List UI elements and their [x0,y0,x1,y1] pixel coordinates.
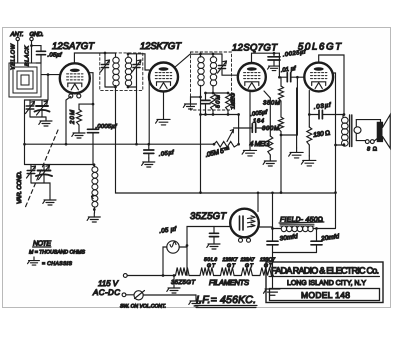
label BLACK [24,46,30,66]
tube U5 35Z5GT rectifier [230,209,259,243]
resistor R1 20M [77,104,94,129]
label 35Z5GT [190,211,227,222]
label .05M 5th [205,146,231,159]
label VAR.COND. [16,171,23,204]
label FIELD-450 [279,217,324,224]
bus: B+ line y=192.6 [117,191,336,194]
coil T1 primary [113,53,119,87]
capacitor C10 30mfd [267,229,278,253]
wire: U3 plate up and over [252,52,280,63]
label 20mfd [320,233,340,243]
wire: bus2 drop to filter node [271,193,274,230]
wire: B+ bus to output transformer bottom [336,144,346,147]
volume control R6 .5M [213,141,240,147]
tube U4 50L6GT output [304,63,333,92]
wire: U1 plate to IFT1 [74,52,115,64]
pins U1 [69,92,81,98]
label .0005uf [96,123,118,130]
label 8 ohm [367,147,377,153]
label 4 MEG [250,141,271,148]
terminal: line plug top [123,274,127,278]
wire: U4 beam ground [289,88,304,158]
svg-text:ANT.: ANT. [10,31,24,38]
field coil L3 450ohm [273,226,318,232]
coil T2 primary [198,53,204,86]
wire: U5 left .05 line [186,227,231,276]
label 350M [263,100,280,107]
ground: heater string end [264,276,281,296]
label 130ohm [313,130,331,139]
wire: U2 plate to IFT2 [175,54,201,67]
svg-text:MODEL 148: MODEL 148 [301,290,350,300]
resistor R7 4MEG [268,128,273,157]
wire: speaker bottom + connectors [356,139,377,144]
trimmer capacitor T2 [218,54,227,73]
wire: grid node down to tuning gang [47,75,49,100]
heater 12SK7 [221,268,235,276]
svg-text:50M: 50M [216,95,222,108]
ground: heater tap [167,276,180,294]
IF transformer T2 dashed box [191,52,232,110]
svg-text:= CHASSIS: = CHASSIS [42,261,73,267]
capacitor C9 .05uf rect [207,227,220,250]
label .01uf [280,65,297,74]
svg-text:35Z5GT: 35Z5GT [190,211,227,222]
svg-text:.05µf: .05µf [48,52,63,59]
label 115V AC-DC [92,279,120,297]
svg-text:FADA RADIO & ELECTRIC Co.: FADA RADIO & ELECTRIC Co. [271,266,379,276]
dashed link: ganged tuning [25,130,58,208]
tube U2 12SK7GT IF amp [149,63,178,92]
svg-text:50L6GT: 50L6GT [298,42,342,53]
trimmer capacitor T1 primary [101,53,110,87]
wire: U1 cathode to bus [65,97,71,146]
terminal: line plug bottom [122,293,126,297]
output transformer T3 primary [342,115,349,146]
ground: R8 [301,156,316,166]
svg-text:4 MEG: 4 MEG [250,141,271,148]
ground: switch line [189,295,202,306]
variable capacitor gang 1 (RF) [25,100,50,117]
capacitor C2 .0005uf osc grid [88,104,99,165]
wire: filter negative return [271,253,316,277]
capacitor C3 AVC filter [201,93,210,115]
coil T1 secondary [125,54,131,87]
resistor R3 1MEG [226,93,231,115]
svg-text:GT: GT [245,263,254,269]
svg-text:1MEG: 1MEG [231,92,237,109]
ground: R1 [72,129,85,138]
svg-text:350M: 350M [263,100,280,107]
label 1MEG [231,92,237,109]
svg-text:8Ω: 8Ω [367,147,377,153]
svg-text:GT: GT [207,263,216,269]
heater string wire [127,274,272,277]
heater 12SA7 [241,268,252,276]
capacitor C1 .05uf antenna [32,46,46,63]
tube U3 12SQ7GT det/AVC/AF [238,63,266,91]
switch SW1 [126,291,196,300]
wire: U5 cathode to filter [259,226,273,228]
label 300M [262,125,279,132]
label GND. [30,31,44,38]
label 30mfd [279,233,298,243]
label 12SA7GT [52,41,95,52]
label .05uf (antenna cap) [48,52,63,59]
ground: U3 cathode [242,146,257,156]
capacitor C4 .0025uf [268,53,280,70]
svg-text:.0005µf: .0005µf [96,123,118,130]
speaker SP1 [377,115,390,149]
ANT terminal [16,37,19,63]
label 50L6GT [298,42,342,53]
coil T2 secondary [210,53,216,93]
svg-text:VAR. COND.: VAR. COND. [16,171,23,204]
ground: R7 [263,157,276,166]
oscillator coil L2 [92,165,98,214]
capacitor C11 20mfd [311,229,322,253]
svg-text:12SQ7GT: 12SQ7GT [232,43,278,54]
wire: T1 primary B+ drop / bus2 left end [116,87,118,193]
wire: U3 cathode to ground [249,91,251,146]
resistor R2 50M [211,93,216,115]
ground: oscillator coil [87,213,100,222]
wire: T1 primary bottom bar [105,86,117,89]
label .05uf rect [159,226,178,235]
resistor R8 130ohm [307,127,312,156]
label 20M [69,110,76,125]
wire: U5 plate from bus2 [257,193,259,212]
svg-text:35Z5GT: 35Z5GT [171,279,196,286]
variable capacitor gang 2 (oscillator) [25,165,53,197]
label 50M [216,95,222,108]
title box [266,262,383,303]
core: field coil [280,224,314,226]
label ANT. [10,31,24,38]
wire: plate down to coupling [278,53,281,78]
pilot lamp PL1 [162,241,187,277]
node: antenna junction [30,44,33,47]
svg-text:12SK7GT: 12SK7GT [140,41,182,52]
label 12SQ7GT [232,43,278,54]
wire: diode load top bar [204,92,229,95]
wire: field coil to screen line [317,228,336,230]
wire: C6 up to U3 diode [264,91,270,128]
wire: speaker top [356,120,380,123]
label .03uf [313,102,332,111]
svg-text:164: 164 [253,118,264,125]
svg-text:M = THOUSAND OHMS: M = THOUSAND OHMS [29,250,86,256]
tap: oscillator coil [92,195,94,199]
label FILAMENTS [209,278,249,287]
svg-text:FILAMENTS: FILAMENTS [209,278,249,287]
ground: gang 2 [43,196,56,205]
label SW. ON VOL.CONT. [120,304,166,310]
loop antenna L1 [9,63,41,97]
ground: U2 cathode [156,115,171,125]
wire: U1 grid2 right side [90,73,95,106]
label YELLOW [11,43,17,70]
svg-text:I.F.= 456KC.: I.F.= 456KC. [196,294,256,306]
bus: AVC line y=144.2 [25,143,215,145]
svg-text:SW. ON VOL.CONT.: SW. ON VOL.CONT. [120,304,166,310]
svg-text:BLACK: BLACK [24,46,30,66]
wire: U4 plate to OPT [319,55,346,116]
note block [28,241,86,268]
resistor: 35Z5 heater [176,268,190,276]
svg-text:AC-DC: AC-DC [92,288,120,297]
capacitor C5 .01uf coupling [279,73,304,82]
wire: T2 top bar [201,53,223,55]
label .0025uf [282,48,307,58]
resistor R4 350M [279,77,284,101]
svg-text:115 V: 115 V [98,279,119,288]
svg-text:GND.: GND. [30,31,44,38]
ground: T2 [183,97,200,109]
wire: loop to grid of U1 [41,73,60,76]
arrow: volume tap [227,130,234,142]
svg-text:LONG ISLAND CITY, N.Y: LONG ISLAND CITY, N.Y [287,280,366,287]
wire: grid leak drop [281,77,297,135]
wire: diode load bottom bar y=114.5 [201,113,239,116]
label .005uf 164 [250,108,269,124]
svg-text:20M: 20M [69,110,76,125]
capacitor C8 .05uf AVC bypass [142,144,155,167]
wire: T1 secondary AVC drop [135,87,138,146]
label 12SK7GT [140,41,182,52]
wire: U2 grid return to AVC bus [147,81,150,146]
wire: T1 secondary bottom bar [127,86,137,89]
label .05uf AVC [158,149,175,158]
svg-text:GT: GT [227,263,236,269]
IF transformer T1 dashed box [100,53,143,91]
wire: right end down to volume control [237,113,240,144]
wire: gang common down-bus [23,100,26,165]
GND terminal [30,37,33,63]
resistor R5 300M [279,101,284,194]
wire: gang2 to oscillator coil [50,163,95,166]
tube U1 12SA7GT converter [60,63,90,93]
labels heater tubes [204,257,275,269]
secondary T3 [354,120,361,141]
ground: gang 1 [39,117,52,126]
core T3 [350,115,352,147]
wire: tap to coupling cap [234,127,253,129]
wire: U4 screen to B+ [333,73,337,228]
svg-text:12SA7GT: 12SA7GT [52,41,95,52]
label 35Z5GT heater [171,279,196,286]
heater 50L6 [200,268,214,276]
svg-text:YELLOW: YELLOW [11,43,17,70]
wire: T1 secondary top bar to U2 grid [127,52,150,70]
capacitor C6 .005uf [252,124,271,133]
wire: T2 to U3 grid [222,73,239,75]
wire: T2 primary bottom to B+ bus [199,86,202,194]
capacitor C7 .03uf tone [309,110,344,119]
wire: U4 cathode [308,91,311,128]
wire: U2 cathode to ground [163,92,165,116]
label I.F.=456KC [195,294,257,308]
heater 12SQ7 [260,268,271,276]
trimmer capacitor T1 secondary [132,54,141,87]
